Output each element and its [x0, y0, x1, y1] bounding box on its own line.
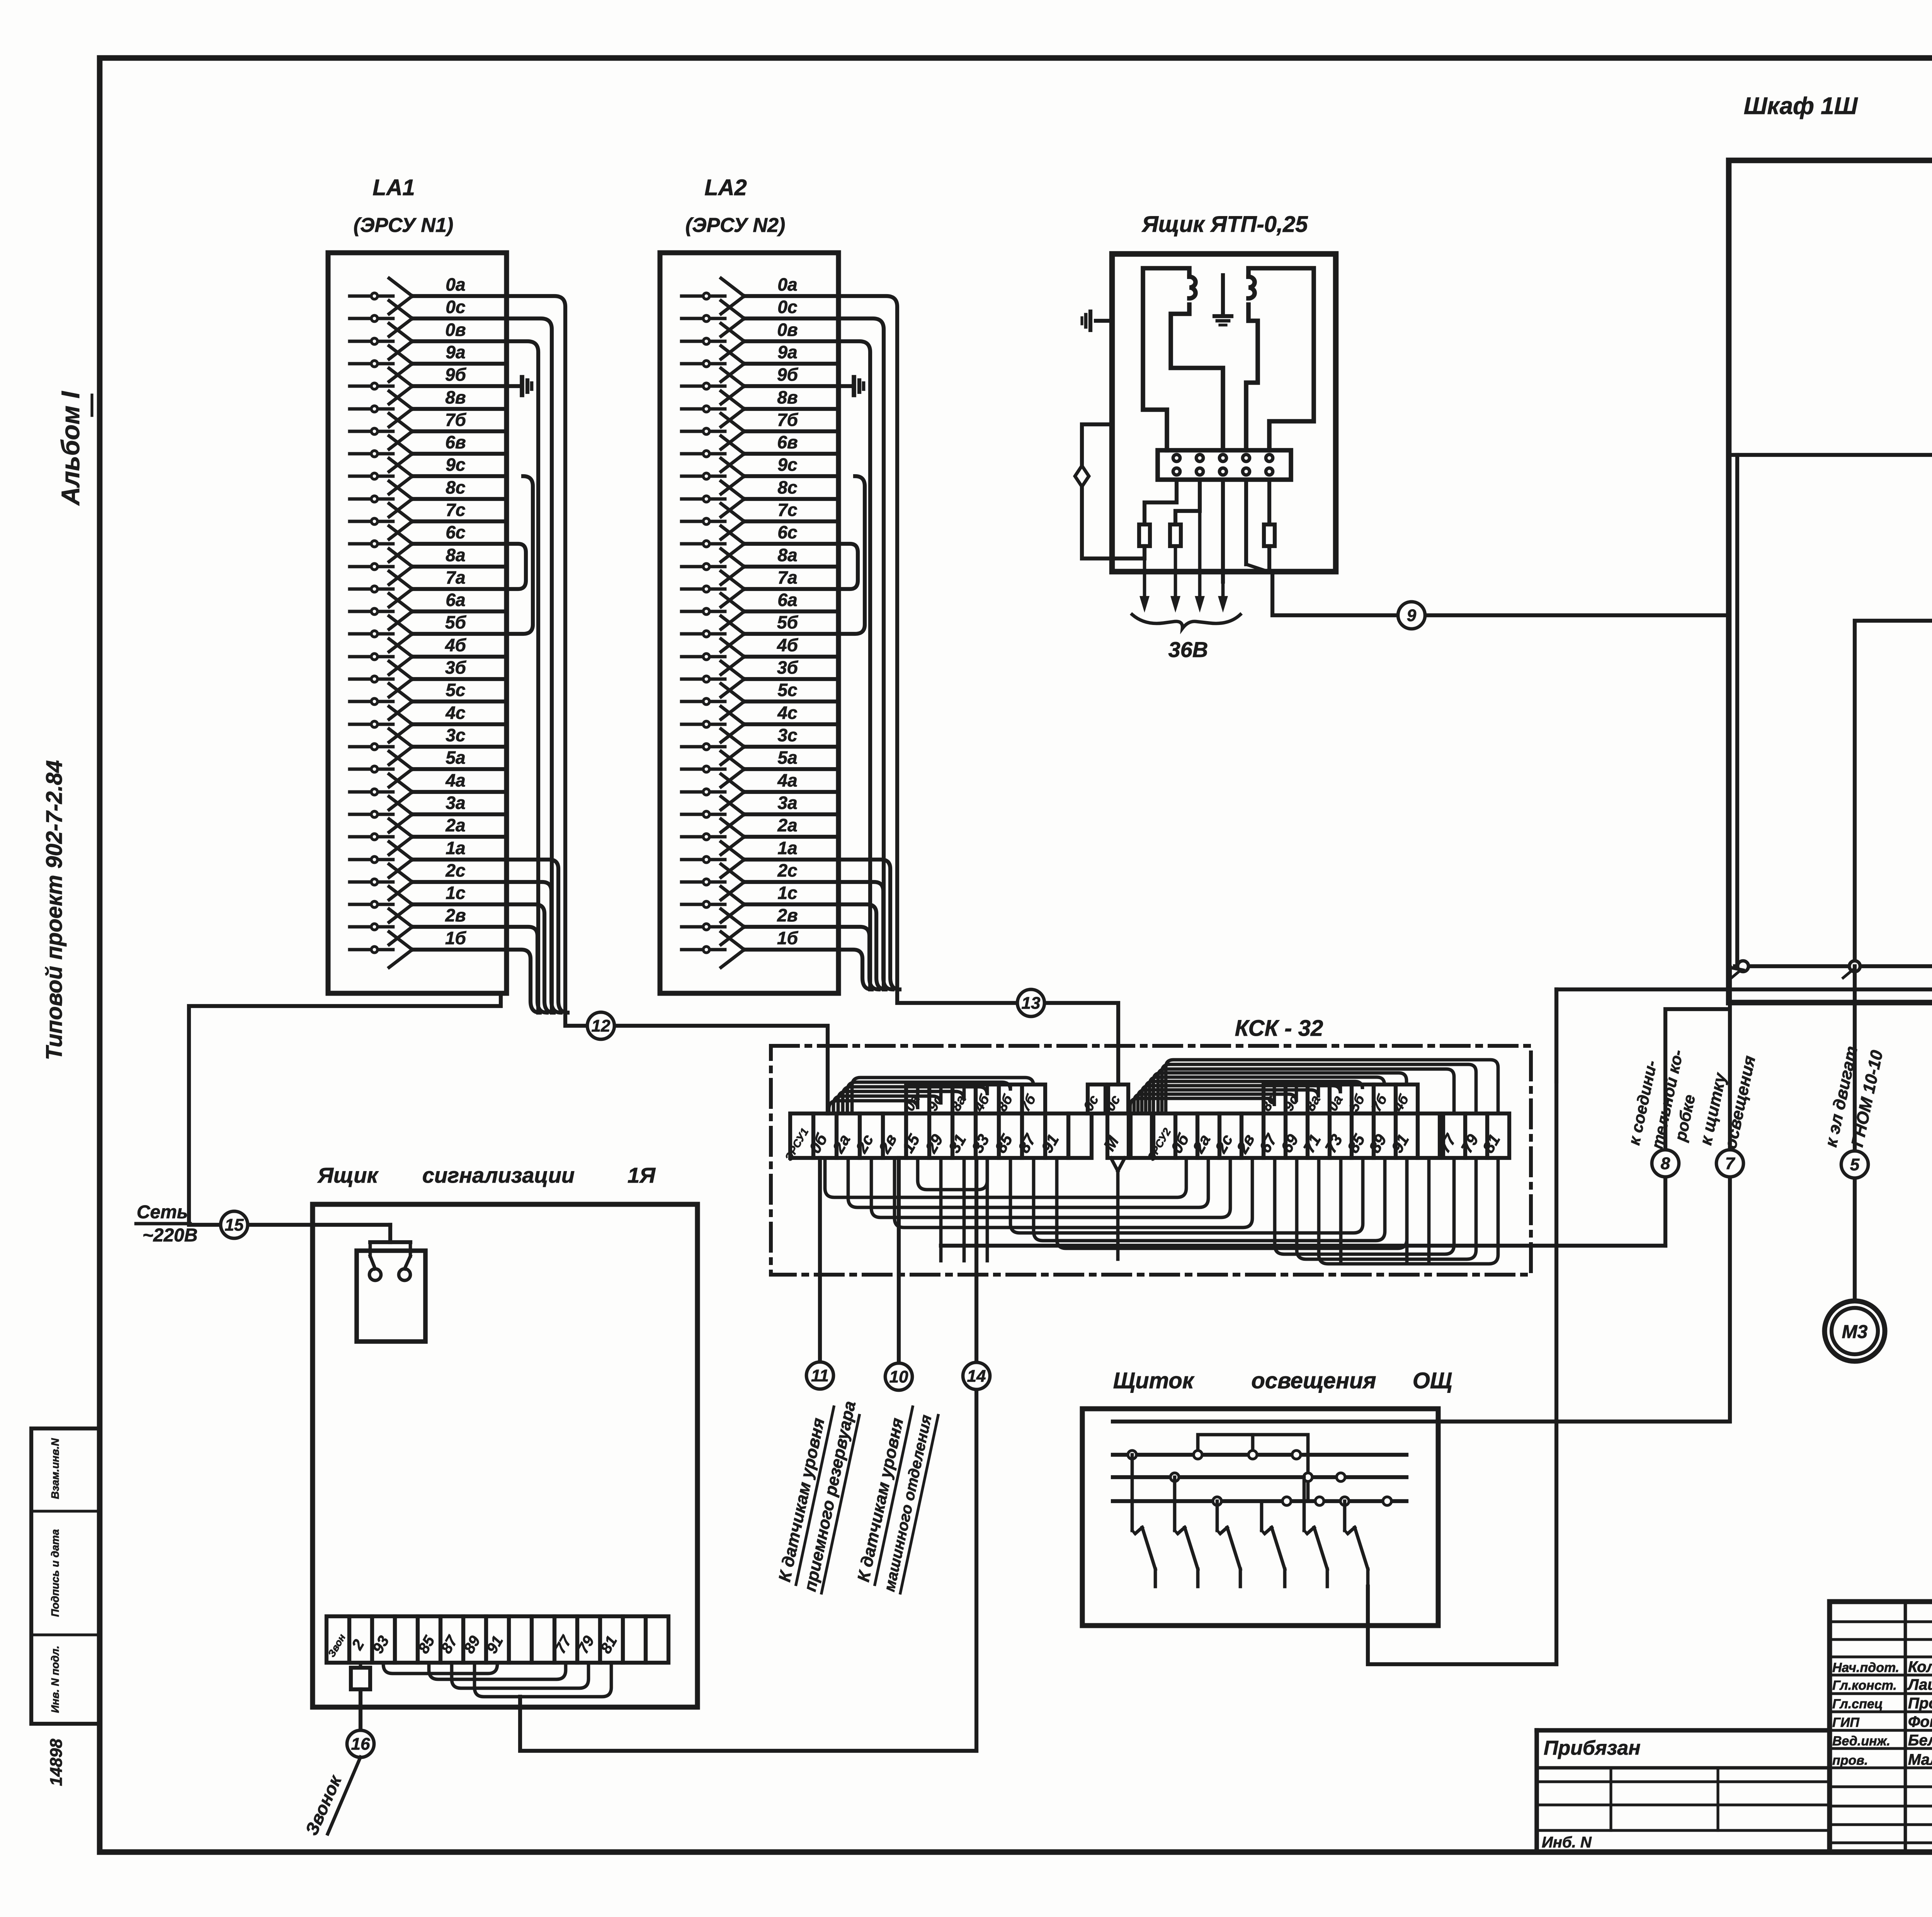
cable marker 12 [587, 1012, 614, 1039]
LA1 row 2с wire [350, 880, 393, 884]
cable marker 15 [221, 1211, 248, 1238]
transformer winding 1 [1189, 277, 1196, 298]
bus terminal [1849, 961, 1860, 972]
LA2 row 8а wire [682, 565, 725, 569]
КСК upper cell 8а [952, 1084, 976, 1113]
svg-text:5а: 5а [777, 747, 797, 768]
brace 36В [1132, 615, 1240, 628]
svg-text:Инв. N подл.: Инв. N подл. [49, 1646, 61, 1713]
LA1 wire 0а to bus [507, 296, 565, 1013]
LA2 row 2а wire [682, 835, 725, 839]
left stamp table [31, 1428, 100, 1724]
cable marker 7 [1716, 1150, 1743, 1177]
svg-text:8: 8 [1661, 1154, 1670, 1173]
svg-text:6в: 6в [445, 432, 466, 452]
КСК jumpers above right [1130, 1084, 1274, 1113]
1Я cell 89 [463, 1616, 486, 1663]
lighting panel top link [1198, 1435, 1308, 1501]
wiring to fuses [1145, 480, 1177, 524]
svg-text:Фомин: Фомин [1908, 1713, 1932, 1730]
svg-text:0в: 0в [445, 320, 466, 340]
LA2 wire 1б to bus [838, 950, 872, 989]
LA1 row 0в wire [350, 340, 393, 343]
LA2 row 3с wire [682, 745, 725, 749]
svg-text:2в: 2в [875, 1131, 900, 1157]
svg-text:7с: 7с [446, 500, 465, 520]
LA1 wire 1а to bus [507, 860, 568, 1013]
LA2 row 0с wire [682, 317, 725, 320]
svg-text:13: 13 [1022, 994, 1041, 1013]
bell [357, 1251, 425, 1342]
terminal strip ЯТП [1158, 450, 1291, 480]
wire output 8 junction box [1665, 1009, 1729, 1246]
КСК cell 2в [883, 1113, 906, 1158]
svg-text:Лаш: Лаш [1907, 1676, 1932, 1693]
svg-text:91: 91 [1037, 1131, 1062, 1156]
1Я cell 85 [418, 1616, 440, 1663]
LA2 wire 1а to bus [838, 860, 900, 989]
LA1 row 1б wire [350, 948, 393, 952]
svg-text:1Я: 1Я [628, 1163, 656, 1187]
LA2 row 6а wire [682, 610, 725, 613]
LA2 row 9б wire [682, 385, 725, 388]
svg-text:9: 9 [1407, 606, 1417, 625]
svg-text:7б: 7б [445, 410, 467, 430]
КСК cell 87 [1022, 1113, 1045, 1158]
svg-text:2а: 2а [777, 815, 797, 835]
signal box 1Я outline [313, 1204, 697, 1707]
wire output 7 lighting [1730, 967, 1743, 970]
КСК cell 0б [1175, 1113, 1197, 1158]
wire cable 12 run [565, 1013, 828, 1113]
transformer core ground [1221, 275, 1225, 312]
LA2 row 0в wire [682, 340, 725, 343]
svg-text:5б: 5б [777, 612, 799, 632]
svg-text:5с: 5с [446, 680, 465, 700]
svg-text:Звон: Звон [325, 1632, 348, 1659]
LA1 row 0с wire [350, 317, 393, 320]
LA2 row 4а wire [682, 790, 725, 794]
LA2 row 3а wire [682, 813, 725, 816]
LA2 row 9с wire [682, 475, 725, 478]
LA1 wire 2с to bus [507, 882, 561, 1013]
svg-text:0с: 0с [777, 297, 797, 317]
svg-text:7с: 7с [777, 500, 797, 520]
switch S5 [1303, 1477, 1306, 1531]
cable marker 10 [885, 1363, 912, 1390]
КСК cell 2с [1219, 1113, 1242, 1158]
svg-text:Взам.инв.N: Взам.инв.N [49, 1438, 61, 1499]
svg-text:5с: 5с [777, 680, 797, 700]
1Я cell 2 [349, 1616, 372, 1663]
svg-text:14898: 14898 [47, 1738, 66, 1786]
svg-text:9а: 9а [446, 342, 465, 362]
КСК cell 2а [1197, 1113, 1219, 1158]
svg-text:4с: 4с [445, 703, 465, 723]
fuse F2 [1170, 524, 1181, 546]
svg-text:Вед.инж.: Вед.инж. [1832, 1734, 1890, 1748]
КСК cell 71 [1308, 1113, 1330, 1158]
svg-text:85: 85 [1344, 1131, 1368, 1156]
svg-text:Щиток: Щиток [1113, 1368, 1195, 1393]
svg-text:0с: 0с [446, 297, 465, 317]
svg-text:5: 5 [1850, 1155, 1860, 1174]
appendix block Прибязан [1537, 1728, 1830, 1733]
LA1 row 0а wire [350, 295, 393, 298]
terminal block LA2 box [660, 253, 838, 993]
LA1 row 4а wire [350, 790, 393, 794]
svg-text:8а: 8а [777, 545, 797, 565]
svg-text:8с: 8с [777, 477, 797, 497]
lighting panel top feed wire [1113, 1420, 1730, 1423]
wire M3 to output 5 [1855, 610, 1932, 966]
svg-text:91: 91 [1388, 1131, 1412, 1156]
cable marker 14 [963, 1362, 990, 1389]
LA2 row 9а wire [682, 362, 725, 366]
svg-text:3б: 3б [777, 657, 799, 678]
LA2 row 7с wire [682, 520, 725, 523]
svg-text:9а: 9а [777, 342, 797, 362]
КСК upper cell 5б [1352, 1084, 1374, 1113]
switch S2 [1173, 1477, 1177, 1531]
svg-text:79: 79 [1457, 1131, 1482, 1156]
svg-text:14: 14 [967, 1367, 986, 1386]
svg-text:0а: 0а [446, 274, 465, 295]
svg-text:2с: 2с [445, 860, 465, 880]
КСК upper cell 0а [1330, 1084, 1352, 1113]
network wire [190, 1223, 390, 1227]
lighting panel box [1082, 1409, 1438, 1626]
svg-text:0с: 0с [1080, 1092, 1102, 1113]
LA1 row 4б wire [350, 655, 393, 659]
svg-text:9б: 9б [445, 364, 467, 385]
LA2 row 4б wire [682, 655, 725, 659]
LA1 wire 2в to bus [507, 927, 547, 1013]
КСК-32 dash-dot outline [771, 1046, 1531, 1275]
svg-text:(ЭРСУ N1): (ЭРСУ N1) [354, 214, 453, 237]
transformer secondary wiring [1248, 268, 1314, 450]
svg-text:1б: 1б [445, 928, 467, 948]
LA1 row 2а wire [350, 835, 393, 839]
svg-text:33: 33 [968, 1131, 993, 1156]
LA2 jumper 6с-7а [838, 544, 858, 589]
svg-text:6а: 6а [446, 590, 465, 610]
cabinet inner partition [1735, 455, 1739, 966]
wire to cable 8 from КСК [941, 1244, 1665, 1248]
КСК upper cell 0с [1088, 1084, 1105, 1113]
svg-text:8с: 8с [446, 477, 465, 497]
svg-text:М: М [1100, 1133, 1122, 1154]
svg-text:4б: 4б [1389, 1091, 1412, 1114]
LA1 row 2в wire [350, 925, 393, 929]
КСК jumpers above left [829, 1084, 918, 1113]
LA1 row 6в wire [350, 452, 393, 456]
svg-text:7а: 7а [446, 567, 465, 587]
КСК cell 33 [976, 1113, 999, 1158]
1Я cell blank [646, 1616, 668, 1663]
svg-text:3с: 3с [777, 725, 797, 745]
svg-text:5а: 5а [446, 747, 465, 768]
КСК cell 2в [1242, 1113, 1264, 1158]
1Я cell Звон [327, 1616, 349, 1663]
КСК upper cell 7б [1374, 1084, 1396, 1113]
svg-text:6а: 6а [777, 590, 797, 610]
LA2 wire 2в to bus [838, 927, 879, 989]
svg-text:2в: 2в [445, 905, 466, 925]
incoming cable symbol [1075, 466, 1089, 487]
LA2 wire 0в to bus [838, 341, 870, 989]
LA2 wire 1с to bus [838, 904, 886, 989]
LA2 row 3б wire [682, 678, 725, 681]
КСК upper cell 0а [906, 1084, 929, 1113]
fuse F1 [1139, 524, 1150, 546]
svg-text:12: 12 [592, 1016, 611, 1035]
svg-text:4б: 4б [777, 635, 799, 655]
1Я cell blank [532, 1616, 554, 1663]
svg-text:2в: 2в [1233, 1131, 1258, 1157]
КСК cell 77 [1443, 1113, 1465, 1158]
svg-text:освещения: освещения [1721, 1054, 1759, 1151]
svg-text:Пронин: Пронин [1908, 1695, 1932, 1712]
wire LA1 to network line [189, 993, 501, 1225]
svg-text:Шкаф 1Ш: Шкаф 1Ш [1744, 93, 1858, 119]
LA2 row 1а wire [682, 858, 725, 861]
svg-text:освещения: освещения [1251, 1368, 1376, 1393]
svg-text:~220В: ~220В [143, 1225, 198, 1246]
wire 1Я to cable 14 [520, 1697, 976, 1751]
КСК upper cell 9с [929, 1084, 952, 1113]
LA2 row 6в wire [682, 452, 725, 456]
КСК cell 81 [1487, 1113, 1509, 1158]
svg-text:87: 87 [1014, 1130, 1039, 1156]
LA2 row 8с wire [682, 497, 725, 501]
svg-text:8в: 8в [445, 387, 466, 407]
svg-text:Альбом I: Альбом I [56, 391, 85, 506]
LA1 row 7б wire [350, 430, 393, 433]
КСК jumpers below [825, 1158, 1186, 1197]
motor M3 [1825, 1301, 1885, 1361]
svg-text:Инб. N: Инб. N [1542, 1834, 1592, 1851]
svg-text:Прибязан: Прибязан [1544, 1737, 1641, 1759]
LA2 row 5б wire [682, 632, 725, 636]
svg-text:LA1: LA1 [372, 175, 415, 200]
svg-text:Нач.пдот.: Нач.пдот. [1832, 1660, 1899, 1675]
КСК upper cell 9с [1286, 1084, 1308, 1113]
LA2 row 5с wire [682, 700, 725, 703]
КСК cell 79 [1465, 1113, 1487, 1158]
svg-text:85: 85 [991, 1131, 1016, 1156]
svg-text:89: 89 [1365, 1131, 1390, 1156]
КСК upper cell 4б [1396, 1084, 1418, 1113]
svg-text:5б: 5б [1346, 1091, 1368, 1114]
bell output to cable 16 [351, 1668, 370, 1689]
svg-text:6с: 6с [446, 522, 465, 542]
LA1 row 8с wire [350, 497, 393, 501]
LA1 row 6с wire [350, 542, 393, 546]
svg-text:2а: 2а [445, 815, 465, 835]
svg-text:ОЩ: ОЩ [1413, 1368, 1452, 1393]
lighting panel terminals [1128, 1451, 1136, 1459]
switch S1 [1131, 1455, 1134, 1531]
КСК upper cell 7б [1022, 1084, 1045, 1113]
box ЯТП-0,25 outline [1112, 254, 1336, 572]
LA1 row 3с wire [350, 745, 393, 749]
svg-text:0а: 0а [777, 274, 797, 295]
LA1 row 7а wire [350, 587, 393, 591]
svg-text:Колесов: Колесов [1908, 1658, 1932, 1675]
1Я cell 81 [600, 1616, 623, 1663]
wire output 5 to motor M3 [1853, 966, 1857, 1301]
LA1 row 7с wire [350, 520, 393, 523]
svg-text:3б: 3б [445, 657, 467, 678]
svg-text:15: 15 [898, 1131, 923, 1156]
svg-text:Малышев: Малышев [1908, 1751, 1932, 1768]
КСК cell 15 [906, 1113, 929, 1158]
LA2 row 0а wire [682, 295, 725, 298]
svg-text:2а: 2а [829, 1131, 854, 1156]
svg-text:пров.: пров. [1832, 1753, 1868, 1768]
label Звонок [328, 1757, 361, 1834]
1Я cell blank [509, 1616, 532, 1663]
1Я cell 91 [486, 1616, 509, 1663]
svg-text:69: 69 [1277, 1131, 1302, 1156]
svg-text:2с: 2с [777, 860, 797, 880]
svg-text:4б: 4б [445, 635, 467, 655]
LA2 row 2с wire [682, 880, 725, 884]
cabinet inner bottom line [1556, 987, 1932, 991]
svg-text:7: 7 [1725, 1154, 1736, 1173]
svg-text:0в: 0в [777, 320, 798, 340]
svg-text:8а: 8а [1302, 1092, 1323, 1113]
svg-text:4а: 4а [445, 770, 465, 790]
LA1 wire 1б to bus [507, 950, 540, 1013]
КСК cell blank [1131, 1113, 1152, 1158]
cable marker 16 [347, 1730, 374, 1757]
КСК cell 85 [999, 1113, 1022, 1158]
КСК cell blank [1068, 1113, 1092, 1158]
switch S3 [1216, 1501, 1219, 1531]
LA1 row 3б wire [350, 678, 393, 681]
LA1 wire 1с to bus [507, 904, 554, 1013]
КСК cell 0б [813, 1113, 837, 1158]
КСК cell 2а [837, 1113, 860, 1158]
bus terminal [1738, 961, 1748, 972]
svg-text:81: 81 [1479, 1131, 1503, 1156]
LA1 row 9а wire [350, 362, 393, 366]
svg-text:9б: 9б [777, 364, 799, 385]
LA1 row 8в wire [350, 407, 393, 411]
LA2 row 5а wire [682, 768, 725, 771]
КСК cell 29 [929, 1113, 952, 1158]
LA1 wire 5б jog [507, 476, 533, 634]
КСК cell ЭРСУ1 [790, 1113, 813, 1158]
terminal block LA1 box [328, 253, 507, 993]
КСК upper cell 8с [1264, 1084, 1286, 1113]
svg-text:8в: 8в [777, 387, 798, 407]
1Я cell 79 [577, 1616, 600, 1663]
КСК cell 91 [1396, 1113, 1418, 1158]
КСК cell blank [1418, 1113, 1440, 1158]
svg-text:ГИП: ГИП [1832, 1715, 1860, 1730]
LA1 row 5с wire [350, 700, 393, 703]
LA2 ground [838, 384, 854, 388]
КСК exits below [818, 1158, 822, 1362]
svg-text:36В: 36В [1168, 637, 1208, 662]
fuse F3 [1264, 524, 1275, 546]
1Я jumpers below strip [429, 1663, 566, 1679]
switch S4 [1260, 1501, 1264, 1531]
transformer winding 2 [1248, 277, 1255, 298]
svg-text:73: 73 [1321, 1131, 1346, 1156]
LA1 row 1а wire [350, 858, 393, 861]
svg-text:1б: 1б [777, 928, 799, 948]
svg-text:71: 71 [1299, 1131, 1324, 1156]
LA1 row 6а wire [350, 610, 393, 613]
lighting panel buses [1113, 1453, 1406, 1457]
svg-text:15: 15 [225, 1216, 244, 1234]
svg-text:Ящик: Ящик [317, 1163, 379, 1187]
svg-text:4а: 4а [777, 770, 797, 790]
svg-text:3с: 3с [446, 725, 465, 745]
cable marker 9 [1398, 602, 1425, 629]
КСК cell 67 [1264, 1113, 1286, 1158]
LA2 wire 0а to bus [838, 296, 897, 989]
svg-text:Типовой проект 902-7-2.84: Типовой проект 902-7-2.84 [42, 760, 67, 1060]
svg-text:7б: 7б [1368, 1091, 1391, 1114]
svg-text:Гл.конст.: Гл.конст. [1832, 1678, 1897, 1693]
ground on box left [1096, 319, 1112, 323]
svg-text:(ЭРСУ N2): (ЭРСУ N2) [685, 214, 785, 237]
svg-text:67: 67 [1255, 1130, 1281, 1156]
LA1 row 5б wire [350, 632, 393, 636]
КСК cell stubs [939, 1158, 943, 1261]
svg-text:7б: 7б [777, 410, 799, 430]
svg-text:3а: 3а [446, 793, 465, 813]
wire fuse3 to cable 9 [1269, 546, 1729, 615]
LA2 row 8в wire [682, 407, 725, 411]
feed wire to QF5 [1729, 453, 1932, 457]
svg-text:11: 11 [811, 1366, 829, 1385]
svg-text:1а: 1а [446, 838, 465, 858]
svg-text:29: 29 [922, 1131, 947, 1156]
svg-text:0а: 0а [1324, 1092, 1346, 1113]
svg-text:10: 10 [889, 1367, 908, 1386]
LA1 row 3а wire [350, 813, 393, 816]
LA2 row 6с wire [682, 542, 725, 546]
svg-text:8а: 8а [446, 545, 465, 565]
wire cable 13 run [897, 989, 1118, 1084]
LA2 row 7а wire [682, 587, 725, 591]
LA1 wire 0в to bus [507, 341, 538, 1013]
LA1 ground [507, 384, 522, 388]
svg-text:КСК - 32: КСК - 32 [1235, 1016, 1323, 1041]
cable marker 5 [1841, 1151, 1868, 1178]
КСК cell 69 [1286, 1113, 1308, 1158]
switch S6 [1343, 1501, 1347, 1531]
LA1 row 1с wire [350, 903, 393, 906]
cable marker 8 [1652, 1150, 1679, 1177]
svg-text:6в: 6в [777, 432, 798, 452]
КСК cell 73 [1330, 1113, 1352, 1158]
КСК cell 89 [1374, 1113, 1396, 1158]
LA1 row 9с wire [350, 475, 393, 478]
LA2 row 2в wire [682, 925, 725, 929]
svg-text:1а: 1а [777, 838, 797, 858]
КСК upper cell 8б [999, 1084, 1022, 1113]
LA2 wire 0с to bus [838, 318, 884, 989]
КСК cell 2с [860, 1113, 883, 1158]
LA1 wire 0с to bus [507, 318, 552, 1013]
